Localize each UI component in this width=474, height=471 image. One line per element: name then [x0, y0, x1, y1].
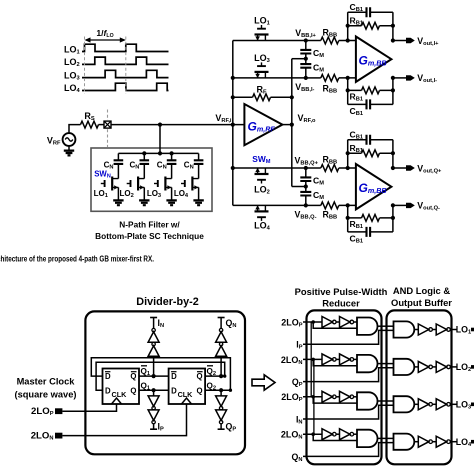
wire VBB,I- to RBB — [306, 77, 321, 79]
buffer wire group2 — [432, 366, 436, 368]
wire VBB,Q- to RBB — [306, 204, 321, 206]
wire 2LO_N entry group4 — [303, 433, 322, 435]
dot QN tap — [219, 374, 223, 378]
Gm,BB I output rail lower — [392, 78, 394, 105]
mixer row wire LO4 — [233, 204, 306, 206]
svg-text:Divider-by-2: Divider-by-2 — [136, 296, 198, 308]
NAND gate group1 — [357, 318, 378, 335]
svg-text:Q: Q — [130, 372, 136, 381]
output wire LO1 — [450, 329, 457, 331]
buffer inverter 2 group2 — [436, 361, 447, 372]
RB1 loop wire top I — [348, 25, 393, 27]
capacitor CN branch 1 — [114, 160, 124, 164]
mixer row wire LO1 — [233, 40, 306, 42]
NAND gate group2 — [357, 355, 378, 372]
AND out wire group4 — [414, 441, 418, 443]
dot fb upper input I — [346, 24, 350, 28]
capacitor CM Q lower — [300, 192, 311, 196]
ground branch 1 — [113, 200, 123, 205]
capacitor CN branch 3 — [167, 160, 177, 164]
LO2 waveform trace — [82, 57, 169, 64]
QN inverter upper — [216, 332, 227, 343]
capacitor CN branch 2 — [140, 160, 150, 164]
svg-text:D: D — [105, 372, 111, 381]
bus junction dot b3 — [170, 151, 174, 155]
wire inv1-inv2 group3 — [336, 396, 339, 398]
wire source to RS — [69, 125, 81, 134]
svg-text:Reducer: Reducer — [322, 298, 360, 309]
mixer switch LO4 — [255, 210, 269, 212]
svg-text:Q: Q — [197, 387, 203, 396]
capacitor CB1 bottom I — [367, 99, 371, 109]
svg-text:chitecture of the proposed 4-p: chitecture of the proposed 4-path GB mix… — [0, 255, 154, 264]
resistor RB1 top Q — [362, 150, 380, 157]
svg-text:D: D — [105, 387, 111, 396]
CB1 loop wire bottom I — [348, 103, 393, 105]
mixer switch LO1 — [255, 33, 269, 35]
Gm,BB I input fb vertical upper — [347, 12, 349, 40]
wire rail to CM mid Q — [292, 186, 306, 188]
inverter 1 group1 — [322, 317, 333, 328]
node dot mixer rail tap — [231, 123, 235, 127]
dashed reference line at port — [107, 110, 109, 148]
dot fb upper input Q — [346, 151, 350, 155]
bus junction dot b2 — [142, 151, 146, 155]
Gm,BB I output rail upper — [392, 12, 394, 40]
AND gate group2 — [394, 359, 415, 375]
wire inv1-inv2 group2 — [336, 358, 339, 360]
dot fb lower output I — [391, 88, 395, 92]
N-path top bus — [118, 152, 198, 154]
ground branch 4 — [193, 200, 203, 205]
LO1 waveform trace — [82, 44, 169, 51]
feedback wire Q2 to D1bar — [91, 358, 230, 391]
wire transistor to ground branch 3 — [171, 187, 173, 200]
dot 2LO_N tap group4 — [311, 432, 315, 436]
resistor RBB Q+ — [321, 165, 339, 172]
nand output wire group3 — [378, 400, 394, 402]
IN chain wire lower — [153, 356, 155, 376]
op-amp Gm,RF — [244, 104, 282, 145]
direct path wire group4 — [313, 434, 357, 440]
NAND gate group4 — [357, 430, 378, 447]
CM middle wire Q — [305, 181, 307, 192]
output marker out,I- — [406, 75, 415, 80]
capacitor CB1 top I — [367, 7, 371, 17]
nand output wire group2 — [378, 363, 394, 365]
switch transistor branch 2 — [137, 177, 139, 191]
output pin LO1 — [471, 328, 474, 332]
output wire out,Q- — [393, 204, 406, 206]
dashed period marker right — [125, 37, 127, 95]
AND logic box — [387, 310, 452, 464]
NAND gate group3 — [357, 392, 378, 409]
rail dot Gm,RF output — [290, 123, 294, 127]
2LOP distribution vertical — [310, 322, 312, 397]
wire VBB,I+ to RBB — [306, 40, 321, 42]
wire cap to transistor branch 3 — [171, 164, 173, 179]
mixer input rail — [232, 41, 234, 206]
QN pin — [220, 318, 222, 329]
Gm,BB Q input fb vertical upper — [347, 140, 349, 168]
wire 2LO_N entry group2 — [303, 358, 322, 360]
AND gate group1 — [394, 321, 415, 337]
partner wire I_P group1 — [303, 330, 394, 344]
feed wire into N-path — [159, 125, 161, 154]
wire 2LOP to FF1 clock — [62, 404, 116, 411]
buffer inverter 1 group1 — [418, 324, 429, 335]
LO3 waveform trace — [82, 70, 169, 77]
wire node to CM I upper — [305, 41, 307, 50]
RB1 loop wire bottom I — [348, 89, 393, 91]
op-amp Gm,BB I — [356, 37, 392, 82]
IN inverter lower — [148, 346, 159, 357]
resistor RBB I- — [321, 75, 339, 82]
svg-text:Positive Pulse-Width: Positive Pulse-Width — [295, 286, 388, 297]
wire RBB to amp I+ — [339, 40, 356, 42]
period arrow 1/fLO — [86, 39, 124, 41]
wire inv2 to nand group4 — [354, 433, 357, 435]
IN inverter upper — [148, 332, 159, 343]
wire cap to transistor branch 4 — [198, 164, 200, 179]
IP inverter upper — [148, 396, 159, 407]
node dot N-path tap — [158, 123, 162, 127]
QP pin — [220, 424, 222, 429]
output wire LO4 — [450, 441, 457, 443]
buffer inverter 1 group4 — [418, 436, 429, 447]
wire inv1-inv2 group4 — [336, 433, 339, 435]
capacitor CM I upper — [300, 50, 311, 54]
N-path branch 1 wire top — [117, 153, 119, 160]
buffer inverter 2 group3 — [436, 399, 447, 410]
output marker out,I+ — [406, 38, 415, 43]
buffer wire group1 — [432, 329, 436, 331]
dot Q1bar tap — [152, 374, 156, 378]
inverter 2 group2 — [340, 354, 351, 365]
op-amp Gm,BB Q — [356, 164, 392, 209]
AND gate group3 — [394, 396, 415, 412]
pin 2LOP — [55, 408, 62, 414]
dot fb upper output I — [391, 24, 395, 28]
nand output wire group1 — [378, 325, 394, 327]
pin 2LON — [55, 433, 62, 439]
svg-text:D: D — [171, 372, 177, 381]
rail dot RF feedback row — [231, 95, 235, 99]
Gm,BB I input fb vertical lower — [347, 78, 349, 105]
buffer inverter 1 group2 — [418, 361, 429, 372]
ground branch 3 — [166, 200, 176, 205]
wire Q1 to FF2 D — [139, 389, 169, 391]
dot 2LO_N tap group2 — [311, 358, 315, 362]
resistor RB1 bottom I — [362, 87, 380, 94]
VRF,o vertical rail — [291, 59, 293, 187]
resistor RBB I+ — [321, 37, 339, 44]
resistor RF — [253, 94, 271, 101]
mixer row wire LO2 — [233, 167, 306, 169]
svg-text:CLK: CLK — [112, 390, 128, 399]
dot Q1 tap — [152, 388, 156, 392]
wire 2LO_P entry group3 — [303, 396, 322, 398]
port box symbol — [104, 121, 111, 128]
CM middle dot I — [304, 57, 308, 61]
AND out wire group1 — [414, 329, 418, 331]
wire CM to node I lower — [305, 68, 307, 78]
CM middle dot Q — [304, 184, 308, 188]
direct path wire group3 — [313, 397, 357, 403]
mixer switch LO2 — [255, 173, 269, 175]
dot Q2bar feedback — [223, 374, 226, 377]
QN inverter lower — [216, 346, 227, 357]
svg-text:Q: Q — [197, 372, 203, 381]
buffer inverter 1 group3 — [418, 399, 429, 410]
output pin LO3 — [471, 403, 474, 407]
switch transistor branch 3 — [164, 177, 166, 191]
wire RBB to amp I- — [339, 77, 356, 79]
inverter 2 group1 — [340, 317, 351, 328]
Gm,BB Q output rail lower — [392, 205, 394, 232]
ground branch 2 — [139, 200, 149, 205]
direct path wire group1 — [313, 322, 357, 328]
wire VBB,Q+ to RBB — [306, 167, 321, 169]
svg-text:CLK: CLK — [178, 390, 194, 399]
output marker out,Q+ — [406, 165, 415, 170]
dot fb upper output Q — [391, 151, 395, 155]
node dot VBB,I- — [304, 76, 308, 80]
inverter 1 group4 — [322, 429, 333, 440]
svg-text:AND Logic &: AND Logic & — [393, 285, 451, 296]
svg-text:Master Clock: Master Clock — [17, 377, 76, 387]
svg-text:(square wave): (square wave) — [14, 390, 76, 400]
wire Q1bar to FF2 Dbar — [139, 375, 169, 377]
dot fb lower input I — [346, 88, 350, 92]
N-path branch 2 wire top — [143, 153, 145, 160]
ground under VRF — [68, 146, 70, 151]
QP inverter upper — [216, 396, 227, 407]
capacitor CM I lower — [300, 64, 311, 68]
svg-text:D: D — [171, 387, 177, 396]
wire RBB to amp Q- — [339, 204, 356, 206]
IP inverter lower — [148, 410, 159, 421]
AND out wire group2 — [414, 366, 418, 368]
node dot VBB,I+ — [304, 38, 308, 42]
partner wire I_N group3 — [303, 405, 394, 419]
IN pin — [153, 318, 155, 329]
wire 2LO_P entry group1 — [303, 321, 322, 323]
flip-flop FF2 box — [169, 369, 206, 405]
mixer switch LO3 — [255, 71, 269, 73]
dashed period marker left — [84, 37, 86, 95]
wire inv2 to nand group2 — [354, 358, 357, 360]
resistor RB1 top I — [362, 22, 380, 29]
CB1 loop wire bottom Q — [348, 231, 393, 233]
Gm,BB Q output rail upper — [392, 140, 394, 168]
capacitor CN branch 4 — [194, 160, 204, 164]
mixer row wire LO3 — [233, 77, 306, 79]
buffer inverter 2 group1 — [436, 324, 447, 335]
partner wire Q_N group4 — [303, 443, 394, 457]
wire node to CM Q upper — [305, 168, 307, 177]
inverter 1 group3 — [322, 391, 333, 402]
node dot VBB,Q+ — [304, 166, 308, 170]
direct path wire group2 — [313, 359, 357, 365]
inverter 1 group2 — [322, 354, 333, 365]
inverter 2 group4 — [340, 429, 351, 440]
wire transistor to ground branch 2 — [143, 187, 145, 200]
resistor RB1 bottom Q — [362, 215, 380, 222]
N-path branch 4 wire top — [198, 153, 200, 160]
rail dot LO2 row — [231, 166, 235, 170]
N-path filter box — [91, 148, 212, 211]
output pin LO2 — [471, 365, 474, 369]
switch transistor branch 1 — [111, 177, 113, 191]
wire CM to node Q lower — [305, 196, 307, 206]
CB1 loop wire top I — [348, 11, 393, 13]
QP chain wire upper — [220, 390, 222, 396]
capacitor CB1 bottom Q — [367, 227, 371, 237]
divider outer box — [85, 311, 245, 454]
nand output wire group4 — [378, 437, 394, 439]
buffer inverter 2 group4 — [436, 436, 447, 447]
main RF wire VRF,i — [111, 124, 244, 126]
output wire out,I+ — [393, 40, 406, 42]
wire transistor to ground branch 1 — [117, 187, 119, 200]
inverter 2 group3 — [340, 391, 351, 402]
feedback wire RF left — [233, 96, 253, 98]
buffer wire group3 — [432, 403, 436, 405]
Gm,RF output wire — [282, 124, 291, 126]
capacitor CB1 top Q — [367, 135, 371, 145]
wire cap to transistor branch 1 — [117, 164, 119, 179]
bus junction dot feed — [158, 151, 162, 155]
wire rail to CM mid I — [292, 58, 306, 60]
node dot VBB,Q- — [304, 203, 308, 207]
output wire LO3 — [450, 403, 457, 405]
output wire out,Q+ — [393, 167, 406, 169]
IP pin — [153, 424, 155, 429]
buffer wire group4 — [432, 441, 436, 443]
block arrow — [252, 375, 275, 390]
rail dot RF feedback — [290, 95, 294, 99]
svg-text:Bottom-Plate SC Technique: Bottom-Plate SC Technique — [95, 231, 204, 241]
partner wire Q_P group2 — [303, 368, 394, 382]
wire cap to transistor branch 2 — [143, 164, 145, 179]
N-path branch 3 wire top — [171, 153, 173, 160]
switch transistor branch 4 — [191, 177, 193, 191]
output marker out,Q- — [406, 203, 415, 208]
Gm,BB Q input fb vertical lower — [347, 205, 349, 232]
QN chain wire lower — [220, 356, 222, 376]
LO4 waveform trace — [82, 83, 169, 90]
flip-flop FF1 box — [103, 369, 140, 405]
IP chain wire upper — [153, 390, 155, 396]
resistor RS — [81, 121, 99, 128]
wire inv1-inv2 group1 — [336, 321, 339, 323]
feedback wire RF right — [271, 96, 292, 98]
dot fb lower input Q — [346, 216, 350, 220]
output wire out,I- — [393, 77, 406, 79]
dot Q2 feedback — [229, 389, 232, 392]
svg-text:Q: Q — [130, 387, 136, 396]
wire 2LON to FF2 clock — [62, 404, 186, 436]
feedback wire Q2bar to D1 — [96, 362, 225, 390]
dot QP tap — [219, 388, 223, 392]
RB1 loop wire top Q — [348, 152, 393, 154]
svg-text:N-Path Filter w/: N-Path Filter w/ — [119, 220, 180, 230]
svg-text:Output Buffer: Output Buffer — [391, 297, 452, 308]
wire inv2 to nand group3 — [354, 396, 357, 398]
CB1 loop wire top Q — [348, 139, 393, 141]
flip-flop FF1 clock wedge — [112, 398, 122, 404]
RB1 loop wire bottom Q — [348, 217, 393, 219]
flip-flop FF2 clock wedge — [182, 398, 192, 404]
AND out wire group3 — [414, 403, 418, 405]
CM middle wire I — [305, 54, 307, 65]
wire RBB to amp Q+ — [339, 167, 356, 169]
capacitor CM Q upper — [300, 177, 311, 181]
wire RS to port — [99, 124, 105, 126]
QP inverter lower — [216, 410, 227, 421]
2LON distribution vertical — [313, 359, 315, 434]
output wire LO2 — [450, 366, 457, 368]
dot fb lower output Q — [391, 216, 395, 220]
rail dot LO3 row — [231, 76, 235, 80]
wire transistor to ground branch 4 — [198, 187, 200, 200]
voltage source VRF — [63, 133, 76, 146]
dot 2LO_P tap group3 — [311, 395, 315, 399]
dot 2LO_P tap group1 — [311, 320, 315, 324]
resistor RBB Q- — [321, 202, 339, 209]
output pin LO4 — [471, 440, 474, 444]
pulse-width reducer box — [307, 310, 382, 464]
wire inv2 to nand group1 — [354, 321, 357, 323]
AND gate group4 — [394, 434, 415, 450]
